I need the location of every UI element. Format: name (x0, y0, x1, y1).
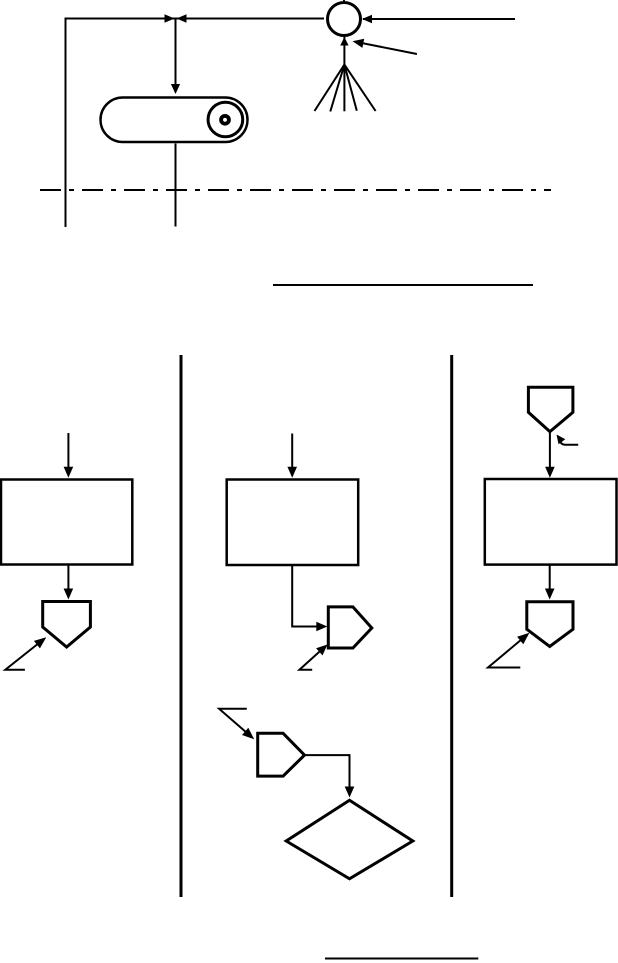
column 1: off-page connector (down pentagon) (43, 602, 91, 648)
column separator right (450, 355, 453, 897)
column 2: process box (227, 480, 359, 566)
spray fan line 2 (330, 65, 344, 112)
column 2: lower off-page connector (right pentagon) (258, 733, 305, 776)
spray gun circle (328, 3, 361, 36)
arrowhead pointing right at junction (165, 14, 175, 22)
pulley hub dot (221, 116, 229, 124)
column 3: process box (485, 479, 617, 565)
column 3: hook arrow at connector point (560, 439, 578, 445)
column 1: leader arrow with foot (5, 639, 43, 669)
spray fan line 5 (344, 65, 375, 111)
wire: vertical drop to roller with down arrow (175, 19, 177, 87)
wire: vertical line below roller (175, 144, 177, 227)
column 2: elbow wire from connector to decision with down arrowhead (305, 755, 350, 790)
centerline (dash-dot) (40, 189, 551, 191)
pointer arrow to spray stem (355, 42, 417, 54)
column 2: leader arrow with foot to lower connector (219, 709, 252, 737)
arrowhead pointing left at junction (177, 14, 187, 22)
wire: top horizontal line right segment with left arrowhead (363, 18, 515, 20)
column 3: top off-page connector (down pentagon) (528, 387, 573, 431)
caption underline (lower) (325, 958, 478, 960)
tick above spray gun circle (343, 0, 345, 3)
column 2: off-page connector (right pentagon) (328, 607, 372, 648)
spray fan line 3 (center) (343, 65, 345, 112)
wire: left vertical line (65, 18, 67, 228)
column 3: bottom off-page connector (down pentagon) (527, 602, 573, 647)
column 3: leader arrow with foot (488, 635, 527, 668)
pulley circle inside roller (208, 102, 243, 137)
roller (stadium shape) (101, 98, 248, 143)
wire: top horizontal line left segment (65, 18, 325, 20)
caption underline (upper) (273, 284, 533, 286)
spray stem with up arrowhead (343, 36, 345, 65)
column 1: arrow box to connector (67, 565, 69, 592)
column 1: entry arrow (67, 433, 69, 469)
spray fan line 1 (315, 65, 345, 111)
column 2: elbow wire to connector with right arrowhead (292, 565, 319, 627)
column 3: arrow connector to box (549, 432, 551, 469)
column 2: entry arrow (291, 434, 293, 470)
column 3: arrow box to connector (549, 565, 551, 591)
column 2: leader arrow with foot (299, 647, 325, 670)
column 1: process box (1, 480, 132, 565)
column separator left (180, 355, 183, 897)
column 2: decision diamond (286, 800, 413, 879)
spray fan line 4 (344, 65, 356, 111)
